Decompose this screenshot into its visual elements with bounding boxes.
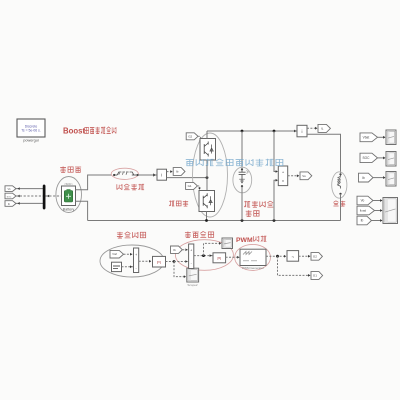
from tag Vo to scope4 xyxy=(357,196,373,205)
goto tag Vo xyxy=(300,172,312,180)
current inner loop label (red) xyxy=(185,231,191,237)
svg-text:PI: PI xyxy=(157,260,161,265)
PID controller PI2 xyxy=(213,253,226,263)
load highlight ellipse xyxy=(332,172,347,198)
svg-text:Ib: Ib xyxy=(173,248,176,252)
transistor IGBT2 block xyxy=(199,191,215,212)
svg-text:v: v xyxy=(282,179,284,183)
node sum2 out junction xyxy=(202,254,205,257)
from tag Ib ref input xyxy=(171,246,183,253)
scope block scope1 xyxy=(386,130,396,145)
from tag Vref xyxy=(110,250,124,258)
wire Vm to goto tag Vo xyxy=(288,175,299,177)
node PWM out junction xyxy=(276,255,279,258)
node bottom bus igbt junction xyxy=(205,219,208,222)
switching transistors highlight ellipse xyxy=(193,133,228,217)
wire NOT to goto G2 xyxy=(299,255,311,257)
current inner loop highlight ellipse xyxy=(175,240,233,271)
svg-text:+: + xyxy=(135,253,137,257)
from tag IL to scope4 xyxy=(357,206,375,215)
wire battery minus to bottom bus xyxy=(76,201,88,220)
svg-text:IL: IL xyxy=(321,126,324,130)
wire buffer resistor to current measurement xyxy=(138,174,157,176)
wire bottom bus xyxy=(88,220,341,222)
wire PI1 to current loop node xyxy=(166,261,175,263)
wire battery plus to buffer resistor xyxy=(76,175,112,190)
capacitor label line1 (red) xyxy=(244,201,250,207)
svg-text:PI: PI xyxy=(217,256,221,261)
svg-text:Ib: Ib xyxy=(362,176,365,180)
scope block scope6 xyxy=(222,238,233,249)
PWM generator block xyxy=(240,249,266,265)
wire Ib tag to sum2 plus xyxy=(182,249,188,251)
svg-text:Battery: Battery xyxy=(63,208,75,212)
wire SOC to demux (dashed) xyxy=(16,195,43,197)
battery block Battery xyxy=(62,186,76,206)
wire i1 signal to goto tag Ib xyxy=(167,171,172,173)
wire i2 signal to goto tag IL xyxy=(307,127,316,129)
goto tag Ib xyxy=(5,201,16,207)
wire Vb to demux xyxy=(16,188,43,190)
wire capacitor branch bottom xyxy=(241,186,243,220)
svg-text:Boost: Boost xyxy=(63,126,85,135)
wire G1 to IGBT2 gate xyxy=(197,186,199,189)
svg-text:Vo: Vo xyxy=(361,199,365,203)
svg-text:i: i xyxy=(302,129,303,134)
svg-text:Iload: Iload xyxy=(360,209,367,213)
wire sum1 to PI1 xyxy=(139,260,152,262)
svg-text:G2: G2 xyxy=(313,254,317,258)
svg-text:G1: G1 xyxy=(313,274,317,278)
from tag SOC to scope2 xyxy=(360,153,378,162)
wire IGBT2 emitter to bottom bus xyxy=(206,212,208,221)
PWM highlight ellipse xyxy=(235,244,271,270)
from tag Vb to scope1 xyxy=(360,133,378,142)
scope block scope4 xyxy=(383,198,398,224)
wire demux to battery m port (dashed) xyxy=(46,195,62,197)
wire i2 to load branch xyxy=(307,134,341,173)
logical NOT block xyxy=(287,251,299,262)
buffer resistor highlight ellipse xyxy=(111,168,138,179)
current measurement block i1 xyxy=(157,169,167,180)
buffer resistor series RLC branch xyxy=(113,174,115,176)
node current ref junction xyxy=(173,260,176,263)
wire node down to scope5 xyxy=(174,262,186,277)
load resistor (series RLC branch) xyxy=(339,173,341,175)
sum block sum1 xyxy=(134,248,139,273)
wire top bus to Vm plus xyxy=(274,131,278,172)
wire Vref to sum1 xyxy=(124,253,134,255)
capacitor label line2 (red) xyxy=(246,210,252,216)
wire to scope2 xyxy=(378,157,386,159)
wire sum2 to PI2 xyxy=(194,255,213,257)
wire junction up to scope6 xyxy=(204,243,222,255)
PID controller PI1 xyxy=(153,256,166,267)
wire capacitor branch top xyxy=(241,131,243,168)
battery label (red) xyxy=(60,166,66,172)
svg-text:<SOC>: <SOC> xyxy=(64,182,73,186)
sum block sum2 xyxy=(189,244,194,269)
svg-text:+: + xyxy=(190,249,192,253)
svg-text:Vbat: Vbat xyxy=(363,135,370,139)
svg-text:PWM: PWM xyxy=(236,237,253,244)
svg-text:PWM Generator: PWM Generator xyxy=(242,266,264,270)
svg-text:Ib: Ib xyxy=(176,170,179,174)
node bottom bus capacitor junction xyxy=(241,219,244,222)
goto tag Vb xyxy=(5,186,16,192)
watermark text (blue) xyxy=(186,160,194,166)
svg-text:Scope2: Scope2 xyxy=(187,283,198,287)
wire Ib to scope4 xyxy=(372,220,383,222)
svg-text:G2: G2 xyxy=(188,134,192,138)
demux bus selector bar xyxy=(43,185,45,209)
wire PWM to NOT and gotos xyxy=(266,255,286,257)
wire PI2 to PWM generator xyxy=(226,256,240,258)
svg-text:SOC: SOC xyxy=(362,156,370,160)
wire IL to scope4 xyxy=(375,210,383,212)
svg-text:powergui: powergui xyxy=(23,139,39,143)
wire IGBT1 collector to top bus xyxy=(206,131,208,139)
wire i1 to switch midpoint node xyxy=(167,177,208,179)
goto tag IL xyxy=(318,124,330,132)
node top bus vm junction xyxy=(273,130,276,133)
svg-text:i: i xyxy=(161,173,162,178)
from tag Ib to scope4 xyxy=(357,216,372,225)
svg-text:Vo: Vo xyxy=(302,174,306,178)
scope block scope2 xyxy=(386,152,396,167)
wire top bus xyxy=(207,130,297,132)
load label (red) xyxy=(333,201,338,206)
powergui block xyxy=(17,119,45,137)
from tag Ib to scope3 xyxy=(359,173,374,182)
capacitor highlight ellipse xyxy=(233,167,252,193)
voltage measurement block Vm xyxy=(278,166,287,186)
svg-text:SOC: SOC xyxy=(7,197,12,199)
goto tag SOC xyxy=(5,193,16,199)
scope block scope3 xyxy=(386,172,396,187)
svg-text:Vref: Vref xyxy=(112,252,117,256)
scope block scope5 xyxy=(187,268,199,282)
goto tag Ib2 xyxy=(173,168,185,176)
current measurement block i2 xyxy=(294,130,296,133)
svg-text:~: ~ xyxy=(291,254,294,259)
buffer resistor label (red) xyxy=(117,184,122,190)
wire IGBT1 emitter to midpoint xyxy=(206,160,208,191)
wire Ib to demux xyxy=(16,202,43,204)
wire node to sum2 minus xyxy=(174,261,188,263)
from tag G2 at IGBT1 gate xyxy=(186,133,198,140)
wire to scope1 xyxy=(378,136,386,138)
wire load to bottom bus xyxy=(340,194,342,221)
transistor IGBT1 block xyxy=(200,139,216,161)
wire to scope3 xyxy=(373,177,385,179)
switch label (red) xyxy=(169,200,174,206)
voltage outer loop highlight ellipse xyxy=(100,245,164,277)
wire G2 to IGBT1 gate xyxy=(198,136,201,141)
wire Vo to scope4 xyxy=(373,200,382,202)
battery highlight ellipse xyxy=(56,177,82,213)
capacitor block C (series RLC branch) xyxy=(241,168,243,170)
node switch midpoint xyxy=(206,176,209,179)
wire bottom bus to Vm minus xyxy=(274,180,278,220)
svg-text:Ib: Ib xyxy=(361,219,364,223)
node bottom bus vm junction xyxy=(273,219,276,222)
node top bus capacitor junction xyxy=(241,130,244,133)
goto tag G2 out xyxy=(311,253,322,261)
from block Vo feedback xyxy=(112,262,122,271)
voltage outer loop label (red) xyxy=(117,232,123,238)
svg-text:Ts = 5e-06 s.: Ts = 5e-06 s. xyxy=(21,129,41,133)
from tag G1 at IGBT2 gate xyxy=(186,182,198,189)
svg-text:G1: G1 xyxy=(188,184,192,188)
goto tag G1 out xyxy=(311,272,323,280)
wire Vo feedback to sum1 xyxy=(122,266,134,268)
wire junction to goto G1 xyxy=(278,256,311,275)
